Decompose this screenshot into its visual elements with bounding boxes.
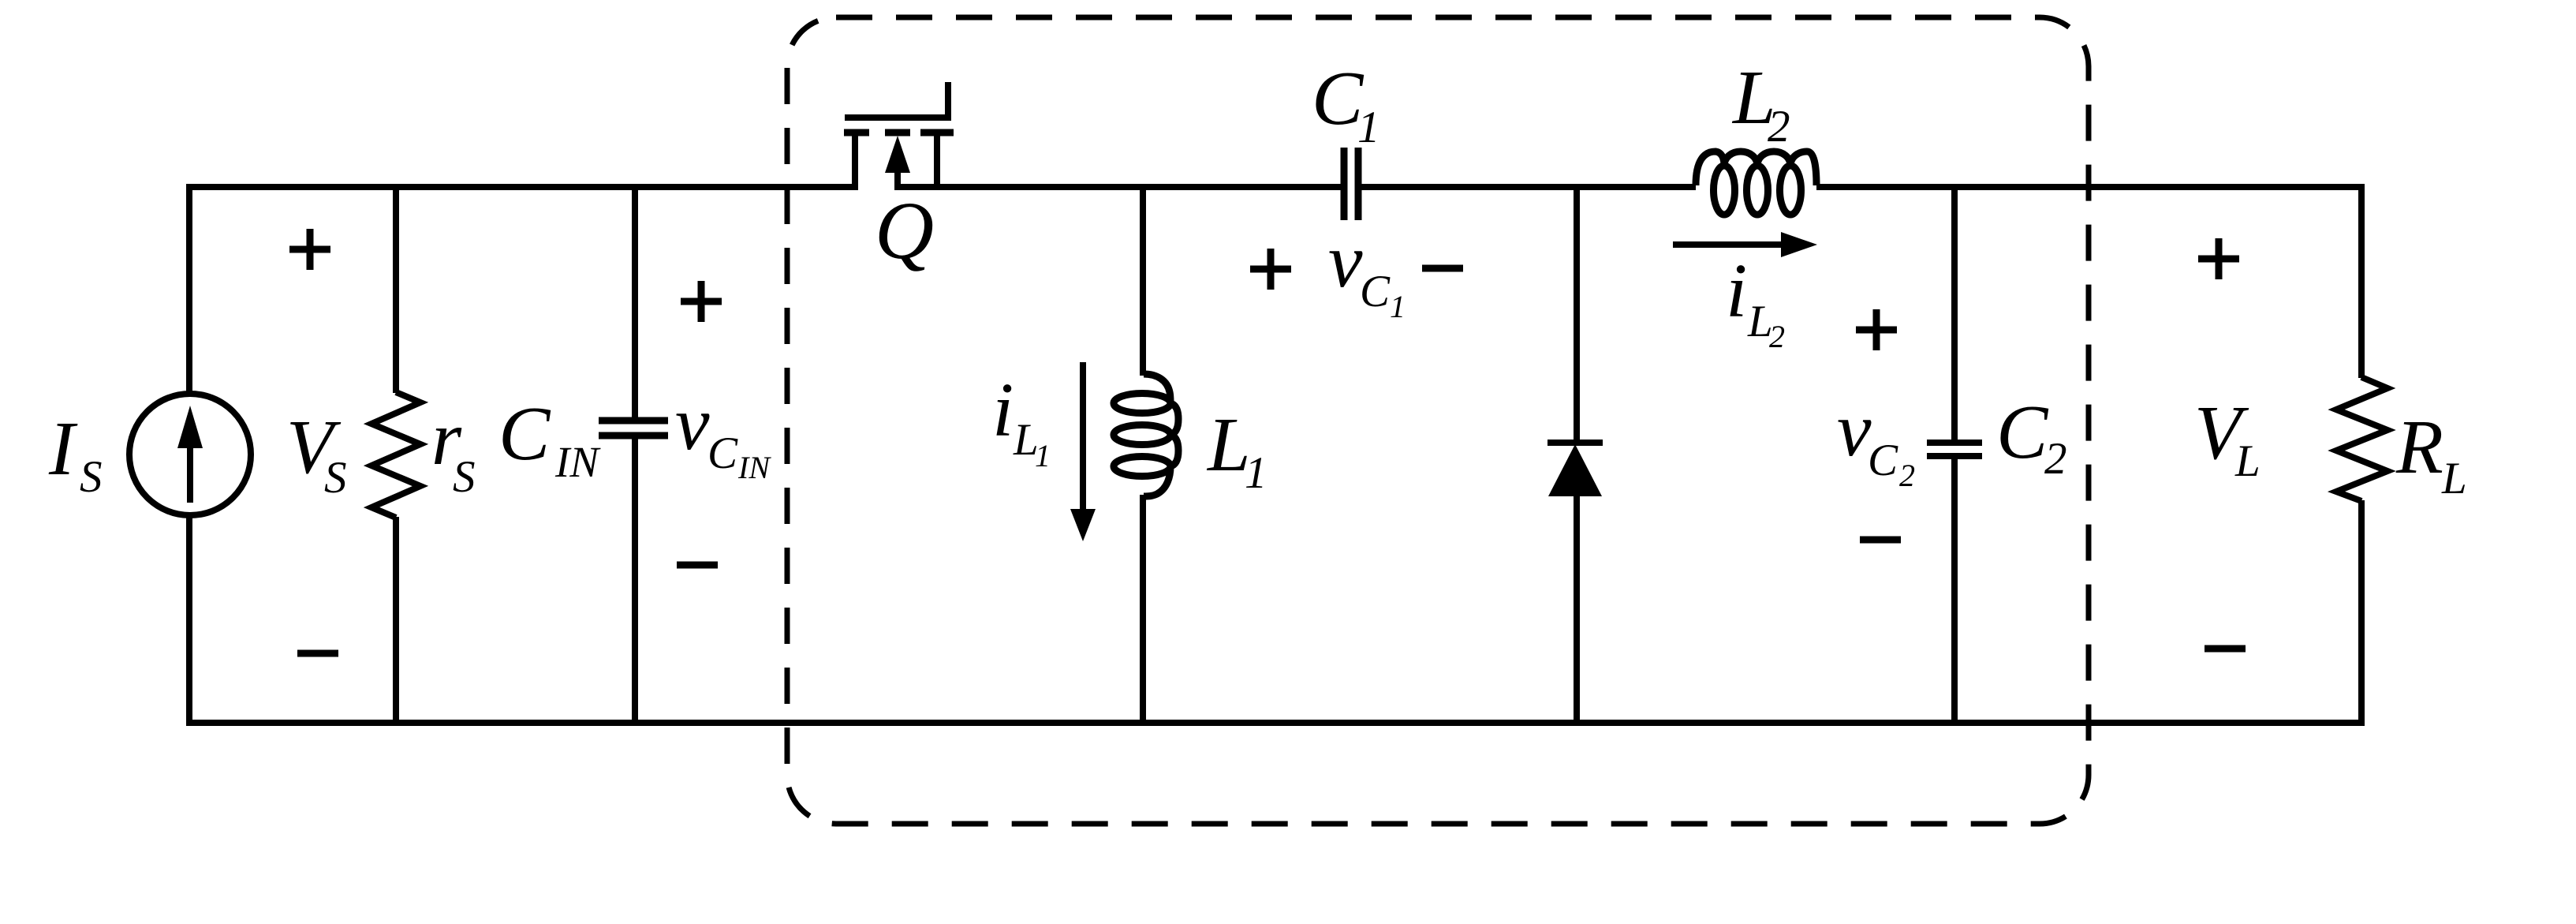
- label iL2: [1726, 249, 1785, 354]
- label L1: [1206, 402, 1267, 498]
- label VL: [2194, 391, 2261, 486]
- plus sign vCIN: [681, 281, 722, 322]
- svg-text:1: 1: [1245, 448, 1267, 498]
- wire top rail from C1 to L2: [1361, 184, 1696, 190]
- transistor Q (MOSFET): [844, 82, 954, 190]
- svg-text:C: C: [1360, 267, 1391, 316]
- dashed converter boundary box: [787, 17, 2089, 824]
- minus sign VS: [297, 650, 338, 657]
- plus sign vC1: [1250, 249, 1291, 290]
- svg-text:2: 2: [1769, 319, 1785, 354]
- capacitor C1: [1344, 148, 1358, 220]
- svg-text:C: C: [498, 391, 551, 477]
- svg-text:L: L: [2234, 436, 2261, 486]
- inductor L1: [1114, 374, 1178, 496]
- svg-text:i: i: [992, 368, 1014, 453]
- svg-text:I: I: [48, 406, 78, 492]
- minus sign vCIN: [677, 562, 718, 569]
- wire IS branch lower: [186, 515, 192, 726]
- label C1: [1312, 56, 1380, 152]
- svg-text:2: 2: [2044, 434, 2067, 484]
- wire diode branch lower: [1574, 495, 1580, 726]
- inductor L2: [1696, 152, 1816, 215]
- svg-text:v: v: [1328, 219, 1363, 304]
- svg-text:IN: IN: [737, 450, 771, 485]
- current arrow iL1: [1070, 362, 1096, 541]
- svg-text:IN: IN: [554, 438, 601, 486]
- svg-text:C: C: [1312, 56, 1365, 141]
- label VS: [286, 405, 347, 503]
- wire CIN branch upper: [632, 184, 638, 417]
- wire top rail from input node to MOSFET drain: [186, 184, 858, 190]
- wire L1 branch upper: [1140, 184, 1146, 376]
- minus sign vC1: [1422, 265, 1463, 272]
- wire L1 branch lower: [1140, 495, 1146, 726]
- wire C2 branch lower: [1951, 459, 1958, 726]
- wire top rail from L2 to RL: [1816, 184, 2365, 190]
- svg-text:R: R: [2395, 405, 2443, 490]
- wire rS branch lower: [393, 517, 399, 726]
- svg-text:S: S: [324, 453, 347, 503]
- label CIN: [498, 391, 601, 486]
- wire top rail from MOSFET source to C1: [898, 184, 1341, 190]
- svg-text:v: v: [1837, 387, 1872, 473]
- wire CIN branch lower: [632, 439, 638, 726]
- capacitor CIN: [599, 421, 668, 436]
- wire diode branch upper: [1574, 184, 1580, 443]
- current arrow iL2: [1673, 232, 1817, 257]
- svg-text:1: 1: [1390, 289, 1406, 324]
- wire RL branch lower: [2358, 500, 2365, 726]
- svg-text:1: 1: [1035, 438, 1051, 473]
- minus sign VL: [2205, 645, 2246, 653]
- node label IS: [48, 406, 103, 502]
- svg-text:C: C: [707, 428, 738, 478]
- svg-text:S: S: [453, 452, 476, 502]
- svg-text:v: v: [675, 381, 710, 466]
- label C2: [1996, 390, 2067, 484]
- wire RL branch upper: [2358, 184, 2365, 378]
- label rS: [431, 396, 476, 502]
- svg-text:S: S: [80, 452, 103, 502]
- wire rS branch upper: [393, 184, 399, 393]
- label Q: [875, 185, 934, 276]
- svg-text:Q: Q: [875, 185, 934, 276]
- label vCIN: [675, 381, 771, 485]
- plus sign VL: [2198, 238, 2239, 279]
- svg-text:2: 2: [1768, 102, 1790, 152]
- resistor RL: [2336, 377, 2387, 501]
- plus sign VS: [289, 229, 330, 270]
- plus sign vC2: [1856, 309, 1897, 350]
- diode D: [1547, 443, 1603, 496]
- minus sign vC2: [1860, 537, 1901, 544]
- label RL: [2395, 405, 2467, 503]
- current source IS: [129, 394, 251, 515]
- wire IS branch upper: [186, 184, 192, 394]
- svg-text:2: 2: [1899, 458, 1915, 493]
- svg-text:L: L: [2441, 454, 2467, 503]
- svg-text:C: C: [1996, 390, 2049, 475]
- svg-text:1: 1: [1357, 103, 1380, 152]
- label L2: [1731, 55, 1790, 152]
- wire C2 branch upper: [1951, 184, 1958, 440]
- svg-text:i: i: [1726, 249, 1747, 334]
- label vC1: [1328, 219, 1406, 324]
- svg-text:C: C: [1868, 436, 1898, 485]
- capacitor C2: [1927, 443, 1982, 456]
- resistor rS: [371, 392, 420, 518]
- label iL1: [992, 368, 1051, 473]
- wire bottom rail: [186, 720, 2365, 726]
- label vC2: [1837, 387, 1915, 493]
